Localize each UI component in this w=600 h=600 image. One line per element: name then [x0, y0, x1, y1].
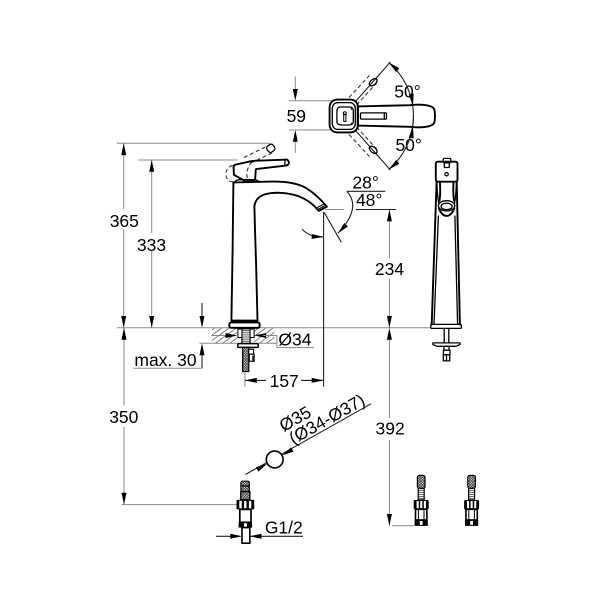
counter hatch right: [238, 328, 294, 343]
svg-text:max. 30: max. 30: [134, 350, 197, 370]
side view head screw: [445, 173, 448, 176]
dimension 59 extent lines: [289, 100, 332, 102]
side view washer: [433, 343, 460, 346]
dimension max.30 upper arrow: [201, 303, 203, 318]
top view base mid: [332, 103, 355, 130]
braided hose end: [241, 481, 249, 491]
side view column: [432, 182, 437, 325]
svg-text:333: 333: [137, 235, 166, 255]
svg-text:350: 350: [109, 407, 138, 427]
392 bottom extent line: [392, 525, 414, 527]
top view lever slot: [361, 113, 387, 119]
dimension 365 extent top line: [117, 142, 270, 144]
threaded stud braided: [243, 347, 249, 371]
svg-text:G1/2: G1/2: [265, 518, 303, 538]
angle arc 50 upper: [389, 62, 414, 138]
ghost lever lower dashed: [349, 135, 370, 157]
shank collars: [238, 329, 242, 338]
faucet body and spout outline: [231, 182, 327, 321]
svg-text:Ø34: Ø34: [278, 329, 311, 349]
ghost handle inner dashed curve: [247, 162, 252, 181]
side view base flange: [431, 324, 462, 328]
28 degree leader line: [347, 190, 386, 192]
ghost lever upper end cap: [368, 77, 378, 87]
leader line: [246, 404, 372, 475]
svg-text:365: 365: [110, 211, 139, 231]
side view stem: [443, 329, 445, 343]
top view base inner: [337, 107, 353, 125]
top view base outer: [330, 100, 358, 133]
top view lever: [358, 105, 435, 128]
dimension 365 line: [123, 143, 125, 209]
svg-text:50°: 50°: [394, 81, 420, 101]
side view nut stack: [444, 346, 449, 350]
hole circle: [266, 451, 283, 468]
counter top line: [117, 327, 431, 329]
fitting body: [240, 509, 251, 522]
side view opening bottom V: [439, 209, 454, 216]
crimp sleeve: [241, 492, 250, 500]
horseshoe washer: [238, 344, 258, 348]
counter bottom line: [200, 342, 277, 344]
thread tail G1/2: [242, 528, 250, 544]
dimension 333 line: [151, 160, 153, 233]
28 degree stream line: [324, 212, 341, 242]
ghost lever lower end cap: [368, 145, 378, 155]
spout tip aerator stripes: [317, 203, 326, 209]
ghost lever upper dashed: [349, 76, 370, 98]
dimension 333 extent line: [138, 159, 237, 161]
fitting end cap: [239, 522, 253, 527]
dimension 350 line: [123, 328, 125, 406]
side view top nub: [443, 158, 451, 163]
50 degree line lower: [355, 130, 390, 170]
ghost lever end cap: [266, 143, 276, 153]
50 degree line upper: [355, 62, 390, 102]
vertical stream reference line: [323, 212, 325, 387]
dimension 59 line: [294, 77, 296, 91]
dimension G1/2: [216, 535, 232, 537]
svg-text:50°: 50°: [395, 135, 421, 155]
mounting lug: [249, 349, 254, 354]
fitting nut: [237, 500, 255, 510]
side view aerator rings: [438, 201, 454, 211]
stud centerline: [244, 372, 246, 387]
ghost handle head dashed: [226, 165, 236, 181]
svg-text:59: 59: [287, 106, 306, 126]
48 degree leader line: [325, 209, 344, 211]
svg-text:234: 234: [375, 259, 404, 279]
ghost lever dashed edges: [244, 146, 267, 157]
max.30 underline: [133, 367, 202, 369]
side view spout back opening: [437, 184, 439, 205]
angle arc 28: [338, 191, 353, 233]
dimension 350 bottom extent line: [122, 504, 237, 506]
counter hatch left: [194, 328, 258, 343]
svg-text:392: 392: [375, 419, 404, 439]
handle head and lever solid: [234, 160, 289, 182]
keyhole mark: [343, 112, 346, 115]
svg-text:48°: 48°: [356, 190, 382, 210]
threaded shank: [242, 329, 250, 346]
base plate: [229, 322, 259, 327]
lever tip inner line: [284, 160, 287, 165]
angle arc 50 lower: [389, 116, 414, 170]
side view head block: [436, 162, 458, 182]
dimension max.30 lower arrow: [201, 347, 203, 369]
swivel arc: [302, 229, 324, 237]
svg-text:157: 157: [270, 371, 299, 391]
faucet skirt dome: [235, 180, 259, 183]
